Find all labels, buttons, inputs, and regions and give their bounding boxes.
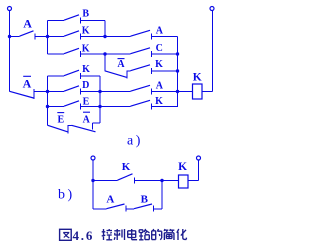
- wire bus4 vertical: [99, 76, 101, 123]
- svg-text:4.6: 4.6: [73, 228, 95, 243]
- wire bus2 vertical: [104, 21, 106, 37]
- switch B: contact tick: [80, 18, 82, 24]
- junction node A-left: [8, 35, 11, 38]
- junction node rbus/K: [176, 69, 179, 72]
- svg-text:b): b): [58, 188, 75, 203]
- svg-text:K: K: [178, 161, 187, 173]
- wire A-bar to K stub: [127, 70, 131, 72]
- svg-text:A: A: [156, 26, 164, 37]
- switch A right2: blade: [131, 85, 151, 91]
- wire A-bar left out: [34, 91, 48, 93]
- switch A left: contact tick: [34, 34, 36, 40]
- caption char lu (road): [139, 229, 149, 240]
- wire branch K1 out: [81, 36, 106, 38]
- terminal left top: [8, 7, 12, 11]
- caption char dian (electric): [128, 229, 137, 240]
- svg-text:A: A: [83, 114, 91, 125]
- switch A-bar bottom NC: contact tick: [92, 123, 94, 130]
- part b junction node join: [160, 179, 163, 182]
- wire branch K3 out: [81, 75, 101, 77]
- switch K1: blade: [64, 31, 79, 36]
- switch D: blade: [64, 86, 79, 91]
- part b: wire K stub: [93, 180, 118, 182]
- wire branch D stub: [48, 91, 65, 93]
- switch A right: blade: [131, 30, 151, 36]
- svg-text:K: K: [82, 64, 90, 75]
- switch E: contact tick: [80, 104, 82, 110]
- part b: wire right join vertical: [161, 181, 163, 210]
- switch A-bar NC left: blade: [10, 91, 34, 98]
- switch D: contact tick: [80, 89, 82, 95]
- svg-text:E: E: [57, 115, 64, 126]
- junction node bus3/D: [46, 90, 49, 93]
- part b: switch K contact tick: [134, 178, 136, 184]
- switch C: contact tick: [151, 51, 153, 57]
- switch E-bar NC: contact tick: [67, 125, 69, 134]
- switch C: blade: [131, 48, 151, 54]
- wire branch C out: [152, 53, 178, 55]
- wire switch A stub: [10, 36, 20, 38]
- junction node bus2/K1: [103, 35, 106, 38]
- wire branch A right2 out: [152, 91, 178, 93]
- wire branch A right out: [152, 36, 178, 38]
- overbar E-bar: [57, 112, 64, 114]
- wire branch K3 stub: [48, 75, 65, 77]
- switch E: blade: [64, 101, 79, 106]
- switch A right: contact tick: [151, 34, 153, 40]
- junction node bus1/A: [46, 35, 49, 38]
- svg-text:D: D: [82, 80, 89, 91]
- junction node bus2b/K2: [103, 52, 106, 55]
- wire branch C stub: [105, 53, 131, 55]
- switch K mid: blade: [131, 65, 151, 71]
- part b: wire right terminal bus: [198, 160, 200, 181]
- switch E-bar NC: blade: [48, 125, 68, 132]
- svg-text:K: K: [155, 96, 163, 107]
- switch K3: contact tick: [80, 73, 82, 79]
- caption char de (of): [152, 229, 162, 240]
- svg-text:K: K: [193, 72, 202, 84]
- part b: switch A contact tick: [125, 206, 127, 212]
- switch K right2: contact tick: [151, 104, 153, 110]
- wire right terminal bus: [212, 11, 214, 92]
- caption char kong (control): [102, 229, 113, 240]
- junction node bus4/D: [98, 90, 101, 93]
- wire coil K feed: [178, 91, 193, 93]
- svg-text:K: K: [122, 161, 131, 173]
- part b: wire K out: [135, 180, 163, 182]
- wire branch K right2 out: [152, 106, 178, 108]
- wire bus2b vertical: [104, 54, 106, 71]
- caption char zhi (system): [114, 229, 124, 240]
- overbar A-bar left: [23, 75, 31, 77]
- wire bus3 vertical: [47, 76, 49, 126]
- svg-text:A: A: [23, 77, 32, 91]
- svg-text:K: K: [82, 26, 90, 37]
- wire branch B out: [81, 20, 106, 22]
- wire bus1 vertical: [47, 21, 49, 55]
- wire branch K1 stub: [48, 36, 65, 38]
- switch B: blade: [64, 15, 79, 20]
- terminal right top: [210, 7, 214, 11]
- junction node bus4/E: [98, 105, 101, 108]
- svg-text:A: A: [156, 81, 164, 92]
- junction node bus3/E: [46, 105, 49, 108]
- part b: wire A to B: [126, 208, 134, 210]
- svg-text:A: A: [117, 59, 125, 70]
- overbar A-bar bottom: [83, 111, 90, 113]
- switch K1: contact tick: [80, 34, 82, 40]
- wire A-bar bottom out: [93, 122, 101, 124]
- part b: switch K blade: [118, 174, 133, 180]
- wire E-bar to A-bar stub: [68, 125, 72, 127]
- part b: terminal right: [197, 156, 201, 160]
- part b: switch B blade: [134, 204, 152, 209]
- part b: terminal left: [91, 156, 95, 160]
- wire branch E out: [81, 106, 131, 108]
- junction node rbus/C: [176, 52, 179, 55]
- part b: wire to coil: [162, 180, 179, 182]
- wire branch D out: [81, 91, 131, 93]
- switch A-bar NC left: contact tick: [33, 89, 35, 99]
- switch K right2: blade: [131, 100, 151, 106]
- svg-text:a): a): [127, 134, 143, 149]
- wire K mid out: [152, 70, 178, 72]
- wire branch K2 stub: [48, 53, 65, 55]
- wire switch A out: [35, 36, 48, 38]
- wire coil K to right bus: [202, 91, 213, 93]
- part b: wire left bus: [92, 160, 94, 209]
- part b: switch B contact tick: [153, 206, 155, 212]
- svg-text:B: B: [82, 8, 89, 19]
- switch K3: blade: [64, 70, 79, 76]
- svg-text:B: B: [141, 193, 149, 205]
- junction node rbus/coil: [176, 90, 179, 93]
- part b: switch A blade: [107, 204, 125, 209]
- wire branch K2 out: [81, 53, 106, 55]
- coil K part a: [193, 84, 203, 99]
- svg-text:A: A: [106, 193, 114, 205]
- svg-text:C: C: [156, 43, 163, 54]
- wire right bus: [177, 37, 179, 108]
- caption char jian (simple): [164, 229, 174, 240]
- part b: wire AB stub: [93, 208, 107, 210]
- part b: wire coil to terminal: [188, 180, 199, 182]
- switch K mid: contact tick: [151, 68, 153, 74]
- wire left bus: [9, 11, 11, 92]
- switch A-bar NC mid: blade: [105, 71, 127, 78]
- part b: wire B out: [154, 208, 163, 210]
- switch A left: blade: [20, 31, 34, 36]
- part b junction node K: [91, 179, 94, 182]
- svg-text:K: K: [82, 43, 90, 54]
- caption char tu (figure): [60, 229, 72, 240]
- wire branch E stub: [48, 106, 65, 108]
- switch A-bar NC mid: contact tick: [126, 71, 128, 79]
- caption char hua (change): [177, 229, 187, 240]
- svg-text:A: A: [23, 16, 32, 30]
- switch K2: contact tick: [80, 51, 82, 57]
- svg-text:E: E: [83, 96, 90, 107]
- switch A-bar bottom NC: blade: [72, 125, 96, 132]
- overbar A-bar mid: [118, 58, 125, 60]
- switch A right2: contact tick: [151, 89, 153, 95]
- part b: coil K: [179, 175, 189, 188]
- svg-text:K: K: [155, 59, 163, 70]
- wire branch A right stub: [105, 36, 131, 38]
- switch K2: blade: [64, 48, 79, 53]
- wire branch B stub: [48, 20, 65, 22]
